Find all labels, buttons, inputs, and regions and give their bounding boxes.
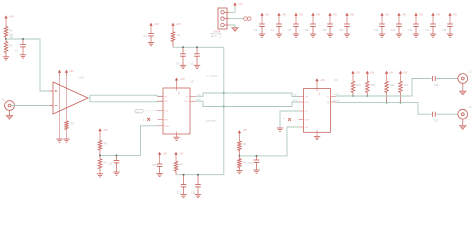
capacitor C7 <box>271 24 282 34</box>
svg-text:U1A: U1A <box>79 76 84 80</box>
svg-text:DIN: DIN <box>305 97 309 99</box>
svg-text:osc: osc <box>136 111 139 113</box>
ground (C12) <box>379 34 385 37</box>
ground (R3) <box>63 139 69 142</box>
ground (R9) <box>236 171 242 174</box>
capacitor C4b <box>190 47 200 65</box>
ground (C1) <box>20 55 26 58</box>
ground (C11) <box>344 34 350 37</box>
connector X1 audio input jack <box>2 98 15 111</box>
svg-text:C16: C16 <box>442 29 447 32</box>
svg-text:C15: C15 <box>425 29 430 32</box>
wire U2 DO to U3 DIN <box>196 93 299 97</box>
no-connect X (U3 DMP) <box>283 118 291 121</box>
wire U3 FLT to ground <box>280 111 299 128</box>
svg-text:+5V: +5V <box>243 129 248 132</box>
ground (U2 GND) <box>173 134 179 140</box>
ground (R7) <box>97 174 103 177</box>
svg-text:+5V: +5V <box>370 71 375 74</box>
svg-text:C18: C18 <box>191 192 196 194</box>
ground (C4a) <box>180 65 186 68</box>
svg-text:VDD: VDD <box>317 92 319 97</box>
svg-text:X1: X1 <box>2 98 6 102</box>
svg-text:+5V: +5V <box>154 22 159 26</box>
power flag +5V (C14) <box>414 13 423 24</box>
ground (C7) <box>276 34 282 37</box>
wire R5 to bottom rail <box>175 171 177 175</box>
svg-text:R11: R11 <box>371 84 376 87</box>
ground (J2) <box>460 83 467 95</box>
capacitor C20 (output 1) <box>433 76 439 87</box>
junction (rail/wire2) <box>223 106 225 108</box>
wire J1 pin1 to +5V <box>230 7 236 12</box>
svg-text:+5V: +5V <box>356 71 361 74</box>
capacitor C13 <box>391 24 402 34</box>
svg-text:C19: C19 <box>248 162 253 165</box>
capacitor C15 <box>108 155 120 171</box>
capacitor C21 (output 2) <box>433 112 439 123</box>
ground (J1) <box>232 28 239 32</box>
IC U3 DAC <box>299 78 338 132</box>
power flag +5V (U3 VDD) <box>315 78 325 89</box>
wire op-amp pin to ground <box>59 112 61 139</box>
svg-text:+5V: +5V <box>69 69 74 73</box>
power flag +5V (R13) <box>399 71 408 81</box>
resistor R1 <box>4 27 14 38</box>
power flag +5V (C9) <box>311 13 320 24</box>
ground (C4b) <box>194 65 200 68</box>
power flag +5V (C10) <box>328 13 337 24</box>
resistor R2 <box>4 39 13 57</box>
svg-text:R1: R1 <box>9 29 13 33</box>
resistor R8 <box>238 141 247 156</box>
capacitor C4a <box>176 47 186 65</box>
ground (C8) <box>293 34 299 37</box>
svg-text:+5V: +5V <box>9 15 14 19</box>
svg-text:+5V: +5V <box>389 71 394 74</box>
label 4x4 DSM top <box>206 75 218 77</box>
power flag +5V (R12) <box>385 71 394 81</box>
junction (R13) <box>400 102 402 104</box>
svg-text:BCK: BCK <box>185 101 190 103</box>
svg-text:+5V: +5V <box>282 13 287 16</box>
power flag +5V (C7) <box>277 13 286 24</box>
net +3V3A rail wire <box>173 31 224 48</box>
ground (C13) <box>396 34 402 37</box>
resistor R5 <box>174 161 183 171</box>
capacitor C12a <box>177 175 187 195</box>
ground (C16) <box>156 173 162 176</box>
wire R4 to +3V3A rail <box>172 42 174 48</box>
power flag +5V (C13) <box>397 13 406 24</box>
capacitor C8 <box>288 24 299 34</box>
svg-text:INR: INR <box>164 101 168 103</box>
svg-text:VREF: VREF <box>164 126 170 128</box>
wire J1 pin3 to ground <box>230 25 236 27</box>
capacitor C10 <box>322 24 333 34</box>
ground (C15) <box>113 172 119 175</box>
power flag +5V (op-amp V+ b) <box>65 69 74 108</box>
ground (C19) <box>253 170 259 173</box>
wire C20 to jack 1 <box>436 78 458 80</box>
ground (R2) <box>3 57 9 60</box>
capacitor C11 <box>339 24 350 34</box>
wire output upper branch <box>90 95 163 98</box>
ground (J3) <box>460 119 467 129</box>
junction (C19 tap) <box>256 155 258 157</box>
resistor R12 <box>385 81 395 102</box>
ground (U3 FLT) <box>277 128 283 131</box>
svg-text:+5V: +5V <box>163 152 168 155</box>
svg-text:R12: R12 <box>390 84 395 87</box>
ground (C9) <box>310 34 316 37</box>
resistor R6 <box>98 141 107 156</box>
svg-text:+5V: +5V <box>176 22 181 26</box>
svg-text:C20: C20 <box>434 85 439 87</box>
svg-text:+5V: +5V <box>419 13 424 16</box>
svg-text:+5V: +5V <box>180 77 185 81</box>
svg-text:+5V: +5V <box>316 13 321 16</box>
node VCOM junction <box>99 154 101 156</box>
capacitor C14 <box>408 24 419 34</box>
junction (C12b) <box>197 174 199 176</box>
svg-text:C12: C12 <box>374 29 379 32</box>
ground (C10) <box>327 34 333 37</box>
wire output lower branch <box>90 98 163 102</box>
power flag +5V (divider R8) <box>238 129 248 141</box>
svg-text:C14: C14 <box>408 29 413 32</box>
svg-text:+5V: +5V <box>436 13 441 16</box>
power flag +5V (C16) <box>448 13 457 24</box>
svg-text:+5V: +5V <box>299 13 304 16</box>
svg-text:BCK: BCK <box>305 102 310 104</box>
ground (C16) <box>447 34 453 37</box>
ground (C3) <box>148 43 154 46</box>
junction (C4b) <box>196 46 198 48</box>
wire U3 OL to output jack 1 <box>334 79 432 97</box>
svg-text:+5V: +5V <box>320 78 325 82</box>
resistor R11 <box>366 81 376 96</box>
svg-text:+5V: +5V <box>103 129 108 132</box>
wire R1 to node VB <box>5 37 7 39</box>
power flag +5V (divider R6) <box>98 128 108 140</box>
svg-text:+5V: +5V <box>238 3 243 6</box>
label 4x4 DSMix <box>206 121 217 123</box>
power flag +5V (R11) <box>366 71 375 81</box>
svg-text:fs = 256kHz: fs = 256kHz <box>206 75 218 77</box>
connector J3 output jack <box>458 106 472 119</box>
ground (U3 GND) <box>314 132 320 139</box>
svg-text:U3: U3 <box>334 78 338 82</box>
svg-text:R10: R10 <box>356 84 361 87</box>
junction (R11) <box>366 95 368 97</box>
svg-text:SER CONN: SER CONN <box>210 33 222 35</box>
power flag +5V (R5 top) <box>174 152 184 162</box>
capacitor C9 <box>305 24 316 34</box>
svg-text:C10: C10 <box>322 29 327 32</box>
svg-text:+5V: +5V <box>265 13 270 16</box>
resistor R10 <box>351 81 361 96</box>
net flag MCLK (oval) <box>135 109 158 113</box>
ground (C14) <box>413 34 419 37</box>
connector J1 (3-pin header) <box>210 8 230 39</box>
IC U2 ADC <box>158 80 196 135</box>
capacitor C12b <box>191 175 201 195</box>
svg-text:+5V: +5V <box>179 152 184 155</box>
svg-text:C17: C17 <box>177 192 182 194</box>
svg-text:U2: U2 <box>191 80 195 84</box>
resistor R13 <box>399 81 409 102</box>
node VB junction <box>5 36 13 40</box>
power flag +5V (C11) <box>345 13 354 24</box>
svg-text:OUTR: OUTR <box>334 100 340 102</box>
no-connect X (U2 FMT) <box>142 118 150 122</box>
ground (X1) <box>6 110 13 119</box>
resistor R3 (op-amp gain) <box>65 109 75 139</box>
svg-text:R2: R2 <box>9 44 13 48</box>
ground (op-amp) <box>56 139 62 142</box>
ground (C12a) <box>180 195 186 198</box>
power flag +5V (op-amp V+) <box>58 70 61 112</box>
resistor R4 <box>171 32 180 42</box>
svg-text:+5V: +5V <box>403 71 408 74</box>
power flag +5V (C16) <box>158 152 167 164</box>
power flag +5V (R4 top) <box>171 22 181 32</box>
ground (C15) <box>430 34 436 37</box>
svg-text:DO: DO <box>186 96 189 98</box>
wire +3V3A vertical rail <box>223 47 225 174</box>
wire U3 OR to output jack 2 <box>334 100 432 114</box>
capacitor C12 <box>374 24 385 34</box>
power flag +5V (divider R1 top) <box>4 15 14 27</box>
op-amp U1A <box>50 76 89 115</box>
junction (R10) <box>352 95 354 97</box>
power flag +5V (R10) <box>351 71 360 81</box>
wire node VB to C1 and op-amp +in <box>6 39 50 91</box>
capacitor C6 <box>254 24 265 34</box>
wire X1 to op-amp -in <box>11 105 50 107</box>
svg-text:VIN: VIN <box>305 127 309 129</box>
capacitor C19 <box>248 156 259 170</box>
node VCOM2 junction <box>238 155 240 157</box>
power flag +5V (C12) <box>380 13 389 24</box>
wire op-amp output to U2 DINL/DINR <box>88 97 90 99</box>
connector J2 output jack <box>458 71 472 84</box>
power flag +5V (J1) <box>233 2 242 7</box>
junction (C4a) <box>182 46 184 48</box>
ferrite bead FB1 <box>244 17 251 21</box>
wire U2 BCK to U3 BCK <box>196 99 299 106</box>
resistor R9 <box>238 156 247 170</box>
junction (R12) <box>386 102 388 104</box>
resistor R7 <box>98 155 107 173</box>
wire J1 pin2 <box>230 18 244 20</box>
svg-text:R13: R13 <box>404 84 409 87</box>
capacitor C16 <box>152 164 162 173</box>
power flag +5V (C8) <box>294 13 303 24</box>
svg-text:DMP: DMP <box>305 120 310 122</box>
power flag +5V (U2 VDD) <box>175 77 185 88</box>
capacitor C15 <box>425 24 436 34</box>
net bottom rail wire <box>176 174 224 176</box>
ground (C12b) <box>195 195 201 198</box>
wire VCOM2 to U3 VIN <box>239 127 298 156</box>
svg-text:+5V: +5V <box>402 13 407 16</box>
capacitor C1 <box>15 39 26 55</box>
svg-text:+5V: +5V <box>333 13 338 16</box>
power flag +5V (C15) <box>431 13 440 24</box>
junction (C1 tap) <box>22 38 24 40</box>
power flag +5V (C6) <box>260 13 269 24</box>
svg-text:VDD: VDD <box>177 91 179 96</box>
svg-text:SCK: SCK <box>164 111 169 113</box>
svg-text:C11: C11 <box>339 29 344 32</box>
power flag +5V (C3) <box>149 22 159 33</box>
svg-text:C13: C13 <box>391 29 396 32</box>
svg-text:OUTL: OUTL <box>334 94 340 96</box>
wire C21 to jack 2 <box>436 113 458 115</box>
junction (C15 tap) <box>116 154 118 156</box>
capacitor C3 <box>144 34 154 43</box>
svg-text:C15: C15 <box>108 163 113 166</box>
svg-text:+5V: +5V <box>350 13 355 16</box>
junction (rail/wire1) <box>223 92 225 94</box>
svg-text:+5V: +5V <box>385 13 390 16</box>
ground (C6) <box>259 34 265 37</box>
junction (C12a) <box>183 174 185 176</box>
capacitor C16 <box>442 24 453 34</box>
svg-text:C16: C16 <box>152 164 157 167</box>
svg-text:C21: C21 <box>434 121 439 123</box>
svg-text:4x4 DSMix: 4x4 DSMix <box>206 121 217 123</box>
wire U2 VREF to C5 node <box>100 126 158 156</box>
svg-text:+5V: +5V <box>453 13 458 16</box>
